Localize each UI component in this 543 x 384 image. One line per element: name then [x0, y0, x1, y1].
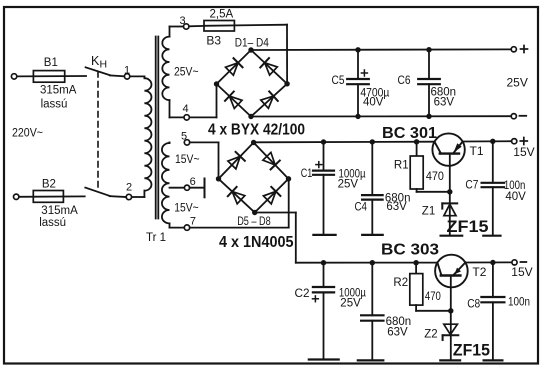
svg-text:H: H — [100, 59, 108, 71]
svg-text:15V~: 15V~ — [175, 152, 200, 166]
svg-text:7: 7 — [190, 216, 196, 228]
svg-text:B3: B3 — [206, 34, 221, 48]
svg-text:C8: C8 — [467, 299, 480, 311]
svg-text:BC 301: BC 301 — [382, 125, 437, 142]
svg-text:1: 1 — [124, 65, 130, 77]
svg-text:4 x BYX 42/100: 4 x BYX 42/100 — [208, 121, 305, 138]
svg-text:ZF15: ZF15 — [447, 218, 489, 236]
svg-text:6: 6 — [190, 176, 196, 188]
svg-text:T1: T1 — [470, 144, 484, 158]
svg-text:25V~: 25V~ — [174, 65, 199, 79]
svg-text:470: 470 — [426, 171, 444, 183]
svg-text:C7: C7 — [465, 179, 478, 191]
svg-text:lassú: lassú — [39, 217, 66, 229]
svg-text:D1– D4: D1– D4 — [235, 37, 270, 49]
svg-text:C1: C1 — [301, 168, 313, 180]
svg-text:2: 2 — [126, 181, 132, 193]
svg-text:4 x 1N4005: 4 x 1N4005 — [219, 234, 294, 251]
svg-text:2,5A: 2,5A — [210, 9, 234, 21]
svg-text:15V: 15V — [511, 265, 532, 279]
svg-text:B1: B1 — [44, 57, 58, 69]
svg-text:63V: 63V — [386, 201, 407, 213]
svg-text:ZF15: ZF15 — [453, 342, 490, 360]
svg-text:C2: C2 — [295, 288, 310, 300]
svg-text:25V: 25V — [340, 298, 361, 310]
svg-text:Z2: Z2 — [424, 328, 437, 340]
svg-text:220V~: 220V~ — [12, 126, 43, 140]
svg-text:470: 470 — [425, 291, 441, 303]
svg-text:4: 4 — [183, 103, 189, 115]
svg-text:Z1: Z1 — [422, 206, 435, 218]
svg-text:C5: C5 — [332, 75, 345, 87]
svg-text:315mA: 315mA — [41, 205, 78, 217]
svg-text:100n: 100n — [508, 297, 530, 309]
svg-text:R1: R1 — [394, 159, 409, 171]
svg-text:Tr 1: Tr 1 — [146, 232, 166, 244]
svg-text:R2: R2 — [393, 277, 408, 289]
svg-text:T2: T2 — [472, 265, 486, 279]
svg-text:25V: 25V — [338, 178, 359, 190]
svg-text:B2: B2 — [42, 178, 56, 190]
svg-text:lassú: lassú — [41, 98, 68, 110]
svg-text:15V~: 15V~ — [174, 200, 199, 214]
svg-text:3: 3 — [180, 15, 186, 27]
svg-text:BC 303: BC 303 — [381, 241, 439, 258]
svg-text:15V: 15V — [513, 145, 534, 159]
svg-text:63V: 63V — [434, 97, 455, 109]
svg-text:C6: C6 — [398, 75, 411, 87]
svg-text:5: 5 — [181, 130, 187, 142]
svg-text:C4: C4 — [355, 201, 368, 213]
svg-text:40V: 40V — [363, 97, 384, 109]
svg-text:63V: 63V — [387, 326, 408, 338]
svg-text:25V: 25V — [507, 75, 528, 89]
svg-text:D5 – D8: D5 – D8 — [237, 216, 271, 228]
svg-text:315mA: 315mA — [40, 84, 77, 96]
svg-text:40V: 40V — [505, 191, 526, 203]
